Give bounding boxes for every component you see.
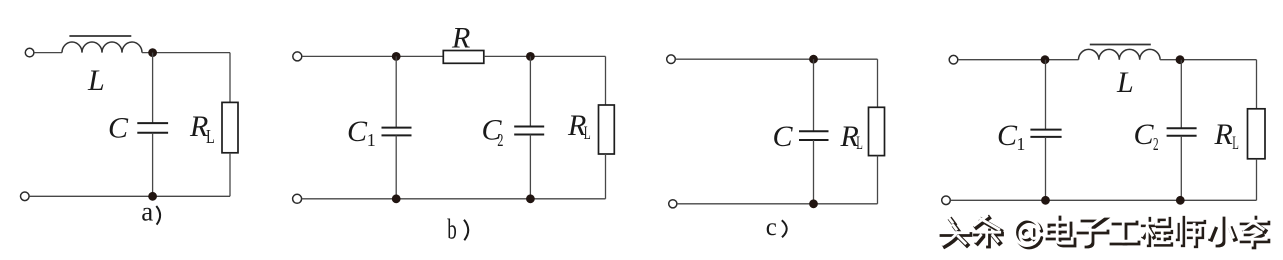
watermark glyph 头 white: [940, 218, 968, 244]
node b bottom-1: [392, 194, 401, 203]
terminal a bottom-left: [21, 192, 30, 201]
watermark glyph 工 white: [1110, 221, 1136, 241]
terminal b top-left: [293, 52, 302, 61]
wire b right rail upper: [605, 56, 607, 105]
watermark glyph 师 white: [1176, 216, 1202, 244]
watermark glyph 李 white: [1240, 216, 1266, 245]
wire b C2 lower: [529, 135, 531, 199]
wire d right rail lower: [1256, 159, 1258, 201]
wire d top-left: [958, 59, 1079, 61]
watermark glyph 子 dark: [1079, 220, 1107, 246]
svg-text:1: 1: [367, 130, 376, 150]
svg-text:L: L: [584, 123, 591, 144]
wire c top: [676, 58, 878, 60]
watermark glyph 头 dark: [942, 220, 970, 246]
wire d C1 lower: [1045, 137, 1047, 200]
node b top-1: [392, 52, 401, 61]
svg-text:L: L: [1232, 133, 1239, 154]
watermark glyph 工 dark: [1112, 223, 1138, 243]
svg-text:C: C: [108, 111, 129, 144]
svg-text:c: c: [766, 214, 777, 241]
capacitor C1 (d): [1030, 129, 1061, 131]
terminal d top-left: [949, 55, 958, 64]
wire d right rail upper: [1256, 60, 1258, 109]
node b bottom-2: [526, 194, 535, 203]
wire b C2 upper: [529, 56, 531, 126]
wire b top-right: [484, 55, 606, 57]
wire a top-left to inductor: [34, 52, 62, 54]
wire d bottom: [951, 199, 1257, 201]
svg-text:2: 2: [497, 130, 503, 150]
svg-text:C: C: [773, 120, 794, 153]
watermark glyph 师 dark: [1178, 218, 1204, 246]
wire c cap lower: [813, 140, 815, 204]
watermark glyph 程 white: [1141, 217, 1169, 243]
capacitor C1 (b): [382, 127, 412, 129]
watermark @ dark: [1017, 221, 1042, 247]
node d bottom-2: [1176, 196, 1185, 205]
terminal c top-left: [667, 55, 676, 64]
watermark glyph 条 white: [974, 216, 1000, 244]
capacitor C (c): [799, 130, 829, 132]
terminal c bottom-left: [669, 200, 677, 208]
wire c bottom: [677, 203, 878, 205]
wire b C1 lower: [395, 135, 397, 198]
wire d top-right: [1160, 59, 1256, 61]
svg-text:b: b: [447, 213, 457, 245]
node a top: [148, 48, 157, 57]
svg-text:C: C: [997, 119, 1018, 152]
capacitor C2 (d): [1167, 127, 1197, 129]
node c bottom: [809, 199, 818, 208]
wire c right rail lower: [877, 156, 879, 204]
wire b right rail lower: [605, 154, 607, 199]
wire a right rail lower: [229, 153, 231, 197]
wire b top-left: [302, 55, 443, 57]
wire a top from inductor to right rail: [142, 52, 230, 54]
terminal b bottom-left: [293, 194, 302, 203]
node a bottom: [148, 192, 157, 201]
svg-text:R: R: [451, 22, 470, 55]
watermark glyph 电 white: [1046, 216, 1072, 243]
wire d C1 upper: [1045, 60, 1047, 130]
watermark glyph 子 white: [1077, 218, 1105, 244]
resistor RL (c): [869, 107, 885, 155]
inductor L (d): [1079, 49, 1161, 59]
capacitor C2 (b): [514, 126, 544, 128]
resistor RL (a): [222, 102, 238, 152]
watermark glyph 小 dark: [1211, 219, 1235, 245]
resistor RL (b): [599, 105, 615, 154]
watermark glyph 电 dark: [1048, 218, 1074, 245]
terminal d bottom-left: [942, 196, 951, 205]
capacitor C (a): [137, 122, 168, 124]
svg-text:L: L: [87, 64, 105, 97]
wire a cap lower: [152, 133, 154, 197]
node c top: [809, 55, 818, 64]
wire b C1 upper: [395, 56, 397, 127]
svg-text:C: C: [347, 115, 368, 148]
wire b bottom: [302, 198, 606, 200]
wire c cap upper: [813, 59, 815, 131]
watermark glyph 李 dark: [1242, 218, 1268, 247]
terminal a top-left: [25, 48, 34, 57]
node d bottom-1: [1041, 196, 1050, 205]
node b top-2: [526, 52, 535, 61]
wire a cap upper: [152, 53, 154, 124]
watermark glyph 小 white: [1209, 217, 1233, 243]
svg-text:L: L: [1116, 66, 1134, 99]
svg-text:C: C: [1134, 118, 1155, 151]
inductor L (a): [62, 42, 142, 53]
watermark @ white: [1015, 219, 1040, 245]
wire d C2 upper: [1180, 60, 1182, 129]
wire d C2 lower: [1180, 136, 1182, 201]
inductor L core bar (a): [69, 35, 131, 37]
node d top-2: [1176, 55, 1185, 64]
wire a bottom: [29, 195, 230, 197]
wire a right rail upper: [229, 53, 231, 103]
inductor L core bar (d): [1090, 44, 1151, 46]
node d top-1: [1041, 55, 1050, 64]
svg-text:a: a: [141, 196, 153, 226]
watermark glyph 程 dark: [1143, 219, 1171, 245]
resistor RL (d): [1248, 109, 1266, 159]
wire c right rail upper: [877, 59, 879, 107]
svg-text:R: R: [1214, 118, 1233, 151]
svg-text:2: 2: [1153, 134, 1159, 154]
svg-text:L: L: [856, 133, 863, 154]
svg-text:L: L: [206, 126, 215, 148]
svg-text:1: 1: [1016, 134, 1025, 154]
watermark glyph 条 dark: [976, 218, 1002, 246]
resistor R (b): [443, 51, 484, 64]
